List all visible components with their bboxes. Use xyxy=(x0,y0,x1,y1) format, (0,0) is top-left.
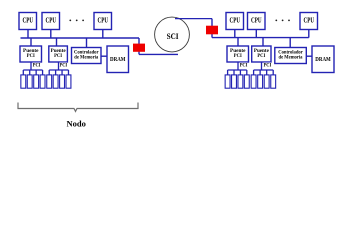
CPU box 1 (left node) xyxy=(19,13,37,30)
CPU box 1 (right node) xyxy=(226,13,244,30)
system bus (right node) xyxy=(212,37,309,39)
Puente PCI box 1 (right node) xyxy=(227,46,249,62)
svg-text:PCI: PCI xyxy=(54,53,62,59)
PCI slots group 1 (left node) xyxy=(21,75,45,88)
PCI sub-bus 2 (right node) xyxy=(254,69,274,71)
ellipsis dots (left node) xyxy=(69,20,84,22)
wire Controlador to DRAM (left node) xyxy=(101,55,107,57)
wires sub-bus 1 to slots (left node) xyxy=(23,70,42,75)
wire Controlador to DRAM (right node) xyxy=(307,55,313,57)
PCI label 1 (left node) xyxy=(33,63,41,69)
PCI label 2 (left node) xyxy=(59,63,67,69)
svg-text:CPU: CPU xyxy=(46,17,57,25)
Puente PCI box 2 (right node) xyxy=(252,46,271,62)
DRAM box (right node) xyxy=(312,46,334,73)
svg-text:Nodo: Nodo xyxy=(67,119,86,128)
Puente PCI box 1 (left node) xyxy=(20,46,42,62)
wire bus to Controlador de Memoria (left node) xyxy=(86,38,88,48)
PCI sub-bus 1 (left node) xyxy=(23,69,42,71)
svg-text:CPU: CPU xyxy=(23,17,34,25)
svg-text:PCI: PCI xyxy=(240,63,248,68)
wire CPU2 to bus (left node) xyxy=(50,30,52,39)
PCI label 1 (right node) xyxy=(240,63,248,69)
svg-text:DRAM: DRAM xyxy=(110,56,126,63)
PCI slots group 2 (left node) xyxy=(47,75,71,88)
wire bus to Puente PCI 1 (left node) xyxy=(30,38,32,46)
PCI slots group 1 (right node) xyxy=(225,75,249,88)
PCI sub-bus 2 (left node) xyxy=(49,69,68,71)
wire left bus to SCI link (elbow down) xyxy=(138,38,140,54)
wire CPU3 to bus (left node) xyxy=(102,30,104,39)
svg-text:CPU: CPU xyxy=(230,17,241,25)
wire bus to Puente PCI 2 (left node) xyxy=(56,38,58,46)
wire CPU1 to bus (right node) xyxy=(234,30,236,38)
Controlador de Memoria box (left node) xyxy=(72,48,102,64)
svg-text:de Memoria: de Memoria xyxy=(279,55,303,60)
svg-text:de Memoria: de Memoria xyxy=(74,55,98,60)
Controlador de Memoria box (right node) xyxy=(275,48,307,64)
PCI sub-bus 1 (right node) xyxy=(228,69,247,71)
CPU box 2 (right node) xyxy=(248,13,266,30)
wires sub-bus 1 to slots (right node) xyxy=(228,70,247,75)
wires sub-bus 2 to slots (right node) xyxy=(254,70,274,75)
wire to SCI ring bottom xyxy=(139,53,178,55)
wire SCI ring top to right link xyxy=(175,18,212,20)
svg-text:CPU: CPU xyxy=(251,17,262,25)
SCI link interface right (red) xyxy=(206,26,218,35)
svg-text:CPU: CPU xyxy=(304,17,315,25)
wire Puente PCI 1 to PCI sub-bus (left node) xyxy=(30,62,32,70)
system bus (left node) xyxy=(21,37,140,39)
svg-text:SCI: SCI xyxy=(167,32,179,41)
svg-text:PCI: PCI xyxy=(264,63,272,68)
wire Puente PCI 1 to PCI sub-bus (right node) xyxy=(237,62,239,70)
CPU box 2 (left node) xyxy=(42,13,60,30)
svg-text:DRAM: DRAM xyxy=(315,56,331,63)
wire bus to Controlador de Memoria (right node) xyxy=(289,38,291,48)
svg-text:PCI: PCI xyxy=(257,53,265,59)
SCI ring xyxy=(155,17,190,52)
wire Puente PCI 2 to PCI sub-bus (right node) xyxy=(261,62,263,70)
svg-text:PCI: PCI xyxy=(33,63,41,68)
svg-text:CPU: CPU xyxy=(98,17,109,25)
wire elbow down to right node xyxy=(211,19,213,38)
DRAM box (left node) xyxy=(107,46,129,73)
wire CPU2 to bus (right node) xyxy=(255,30,257,38)
wire bus to Puente PCI 1 (right node) xyxy=(237,38,239,46)
wire Puente PCI 2 to PCI sub-bus (left node) xyxy=(58,62,60,70)
svg-text:PCI: PCI xyxy=(234,53,242,59)
PCI label 2 (right node) xyxy=(263,63,271,69)
node bracket (brace under left node) xyxy=(18,103,138,112)
svg-text:PCI: PCI xyxy=(60,63,68,68)
PCI slots group 2 (right node) xyxy=(251,75,276,88)
svg-text:PCI: PCI xyxy=(27,53,35,59)
wire CPU1 to bus (left node) xyxy=(27,30,29,39)
wires sub-bus 2 to slots (left node) xyxy=(49,70,68,75)
wire CPU3 to bus (right node) xyxy=(308,30,310,38)
ellipsis dots (right node) xyxy=(275,20,290,22)
Puente PCI box 2 (left node) xyxy=(49,46,68,62)
CPU box 3 (left node) xyxy=(94,13,112,30)
wire bus to Puente PCI 2 (right node) xyxy=(262,38,264,46)
SCI link interface left (red) xyxy=(133,44,145,52)
CPU box 3 (right node) xyxy=(300,13,318,30)
